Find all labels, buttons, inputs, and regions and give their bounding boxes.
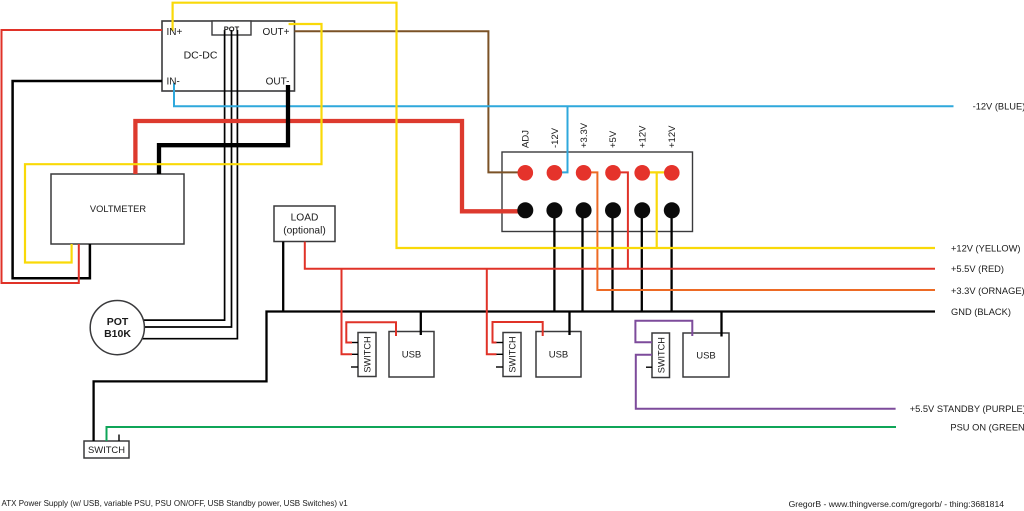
wire orange +3.3V jack to orange bus [584,172,936,290]
jack +5V black terminal [605,202,621,218]
svg-text:+12V: +12V [667,125,678,148]
svg-text:SWITCH: SWITCH [363,336,373,372]
wire POT lead 3 [143,30,238,339]
wire yellow +12V bus to IN+ [173,3,935,248]
wire thick black OUT- to voltmeter [159,85,288,174]
wire yellow OUT+ to voltmeter supply [25,24,322,263]
jack +12V red terminal a [634,165,650,181]
wire red from switch S2 top pin to USB2 [493,322,543,343]
wire POT lead 1 [143,30,225,320]
wire GND drop from -12V jack [553,210,555,311]
wire blue branch to -12V jack [556,106,568,172]
svg-text:+5.5V STANDBY (PURPLE): +5.5V STANDBY (PURPLE) [910,404,1024,414]
wire GND drop from +3.3V jack [581,210,583,311]
load (optional) module [274,206,335,242]
wire -12V blue from IN- to right label and jack [174,83,954,106]
svg-text:GregorB - www.thingverse.com/g: GregorB - www.thingverse.com/gregorb/ - … [789,499,1005,509]
svg-text:+12V (YELLOW): +12V (YELLOW) [951,243,1021,253]
switch S2 pin stubs [497,342,504,344]
wire GND drop from LOAD [282,242,284,312]
jack -12V black terminal [546,202,562,218]
svg-text:USB: USB [549,350,569,361]
svg-text:B10K: B10K [104,328,131,340]
svg-text:POT: POT [107,316,129,328]
svg-text:GND (BLACK): GND (BLACK) [951,307,1011,317]
jack ADJ black terminal [517,202,533,218]
wire green PSU ON bus from switch S4 [107,427,897,441]
svg-text:+3.3V: +3.3V [579,122,590,148]
wire GND drop to USB1 [420,312,422,336]
potentiometer POT B10K [90,301,144,355]
wire purple standby into switch S3 and USB3 [635,321,692,343]
switch S1 for USB1 [358,333,376,377]
wire red drop to switch S1 middle pin [342,269,353,355]
svg-text:USB: USB [402,350,422,361]
wire yellow jumper between +12V jacks [645,171,668,173]
wire GND bus black with branch to PSU ON switch [94,312,935,442]
banana jack panel [502,152,693,232]
wire GND drop from +12V jack b [670,210,672,311]
svg-text:-12V (BLUE): -12V (BLUE) [973,101,1024,111]
wire GND drop from +5V jack [611,210,613,311]
jack +12V red terminal b [664,165,680,181]
DC-DC converter module U1 [162,21,295,91]
voltmeter module [51,174,184,244]
wire red drop to switch S2 middle pin [487,269,497,355]
wire red +5.5V bus from LOAD to right label [305,242,935,269]
wire GND drop to USB2 [568,312,570,336]
USB port 3 [683,333,729,377]
svg-text:POT: POT [224,25,240,34]
jack +5V red terminal [605,165,621,181]
wire thick red voltmeter to ADJ jack [135,121,521,211]
jack +12V black terminal a [634,202,650,218]
svg-text:IN+: IN+ [167,27,183,38]
svg-text:+5V: +5V [608,130,619,148]
svg-text:+12V: +12V [637,125,648,148]
svg-text:-12V: -12V [550,127,561,148]
USB port 2 [536,332,581,378]
svg-text:IN-: IN- [167,77,180,88]
wire GND drop to USB3 [720,312,722,337]
wire brown OUT+ to ADJ jack [295,31,521,172]
svg-text:+5.5V (RED): +5.5V (RED) [951,264,1004,274]
wire purple +5.5V standby bus from switch S3 [636,355,896,409]
svg-text:DC-DC: DC-DC [184,50,218,62]
PSU ON switch S4 [84,441,129,458]
svg-text:LOAD: LOAD [291,212,319,223]
switch S3 for USB3 [652,333,670,378]
jack +3.3V red terminal [576,165,592,181]
USB port 1 [389,332,434,378]
svg-text:SWITCH: SWITCH [88,444,125,455]
wire red from switch S1 top pin to USB1 [346,322,396,342]
wire POT lead 2 [144,30,232,327]
switch S1 pin stubs [352,342,358,344]
svg-text:USB: USB [696,351,716,362]
wire red IN+ loop to voltmeter [2,30,163,283]
jack +12V black terminal b [664,202,680,218]
wire red from +5V jack to red bus [613,172,628,268]
svg-text:SWITCH: SWITCH [508,336,518,372]
wire black IN- input ground loop to voltmeter [13,81,162,278]
svg-text:ADJ: ADJ [521,130,532,148]
svg-text:+3.3V (ORNAGE): +3.3V (ORNAGE) [951,286,1024,296]
jack -12V red terminal [547,165,563,181]
switch S2 for USB2 [503,333,521,377]
svg-text:OUT+: OUT+ [263,27,290,38]
svg-text:SWITCH: SWITCH [656,337,666,373]
svg-text:OUT-: OUT- [266,77,290,88]
jack ADJ red terminal [518,165,534,181]
POT trimmer box on DC-DC [212,21,251,35]
svg-text:VOLTMETER: VOLTMETER [90,204,146,214]
svg-text:ATX Power Supply (w/ USB, vari: ATX Power Supply (w/ USB, variable PSU, … [2,499,349,508]
switch S4 pin stub [118,435,120,442]
switch S3 pin stub [646,366,652,368]
svg-text:PSU ON (GREEN): PSU ON (GREEN) [950,422,1024,432]
jack +3.3V black terminal [576,202,592,218]
wire GND drop from +12V jack a [641,210,643,311]
svg-text:(optional): (optional) [283,226,325,237]
wire yellow +12V jack to yellow bus [656,172,658,248]
